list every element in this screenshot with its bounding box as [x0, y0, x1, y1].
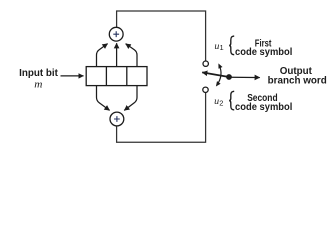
- rotation arc arrowhead top: [218, 63, 222, 68]
- pivot dot: [226, 74, 232, 80]
- svg-text:code symbol: code symbol: [235, 102, 293, 113]
- svg-text:code symbol: code symbol: [235, 47, 293, 58]
- adder U2 (modulo-2 adder, bottom): [110, 112, 124, 126]
- contact u2 (open circle): [203, 87, 208, 92]
- tap wire cell3 to bottom adder: [124, 86, 137, 111]
- cell divider 1: [105, 67, 107, 86]
- svg-text:1: 1: [220, 43, 224, 52]
- plus sign of U2: [114, 116, 120, 122]
- wire top rail from adder U1 to u1 contact: [117, 11, 206, 61]
- input arrow: [61, 75, 84, 77]
- switch arm: [202, 72, 229, 77]
- brace for u2: [229, 91, 234, 110]
- tap wire cell2 to top adder: [116, 43, 118, 66]
- contact u1 (open circle): [203, 61, 208, 66]
- brace for u1: [229, 36, 234, 55]
- svg-text:branch word: branch word: [268, 76, 327, 87]
- svg-text:2: 2: [219, 99, 223, 108]
- adder U1 (modulo-2 adder, top): [109, 27, 123, 41]
- svg-text:m: m: [34, 80, 43, 91]
- wire bottom rail from adder U2 to u2 contact: [117, 93, 206, 143]
- tap wire cell1 to top adder: [97, 44, 108, 67]
- tap wire cell3 to top adder: [126, 44, 137, 67]
- tap wire cell1 to bottom adder: [97, 86, 110, 111]
- cell divider 2: [126, 67, 128, 86]
- plus sign of U1: [113, 31, 119, 37]
- output arrow: [231, 76, 260, 78]
- svg-text:Input bit: Input bit: [19, 68, 58, 79]
- rotation arc: [217, 65, 221, 85]
- rotation arc arrowhead bottom: [216, 81, 221, 86]
- shift register box: [86, 67, 147, 86]
